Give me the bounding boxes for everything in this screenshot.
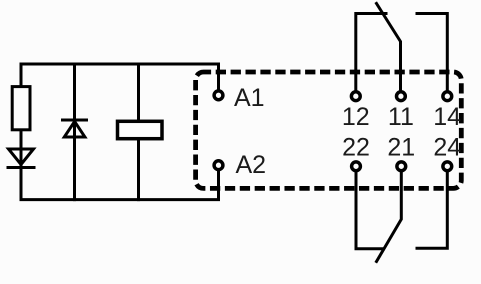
svg-text:24: 24 (433, 134, 461, 162)
svg-text:12: 12 (342, 103, 370, 131)
svg-text:14: 14 (433, 103, 461, 131)
svg-text:11: 11 (388, 103, 414, 131)
svg-text:22: 22 (342, 134, 370, 162)
svg-text:A1: A1 (234, 84, 265, 112)
svg-text:A2: A2 (236, 151, 267, 179)
svg-text:21: 21 (387, 134, 415, 162)
